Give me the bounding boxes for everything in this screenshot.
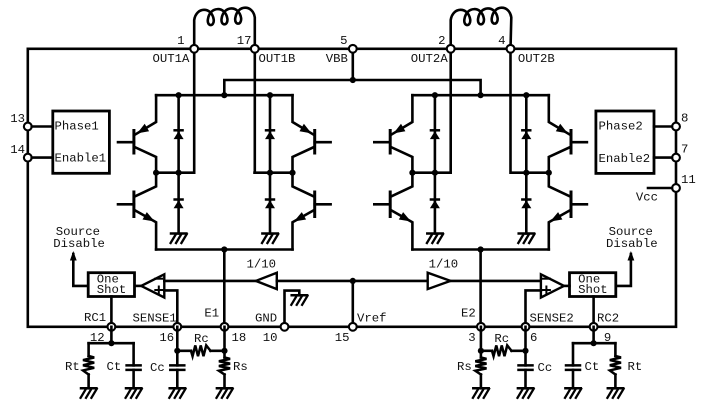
pin 13 (Phase 1 input) [24,123,32,131]
svg-text:RC2: RC2 [597,311,619,325]
svg-text:Vcc: Vcc [636,191,658,205]
wire pin3 down [478,327,484,354]
label OUT1B [259,52,296,66]
svg-text:Disable: Disable [606,237,658,251]
svg-text:Shot: Shot [578,283,608,297]
pin 6 (SENSE2) [522,323,530,331]
ground (Rs right) [473,388,489,398]
label Phase2 [599,120,643,134]
wire bridge 1 top rail [156,94,292,97]
svg-text:Rc: Rc [494,332,509,346]
svg-text:1: 1 [177,34,184,48]
logic block Phase2/Enable2 [596,111,654,173]
wire E2 sense [479,250,482,327]
resistor Rc (right) [481,345,526,356]
pin 17 (OUT1B) [251,45,259,53]
svg-text:2: 2 [438,34,445,48]
motor winding L1 (OUT1A-OUT1B) [194,8,255,49]
label Shot (U1) [97,283,127,297]
svg-text:VBB: VBB [326,52,348,66]
label GND [255,311,277,325]
node OUT2A [409,170,450,176]
svg-text:OUT1A: OUT1A [153,52,191,66]
label RC1 [84,311,106,325]
pin number 6 [530,331,537,345]
wire U2 to RC2 [592,297,595,327]
diode D1A-bottom [173,173,183,234]
label 1/10 left [247,257,277,271]
label Shot (U2) [578,283,608,297]
svg-text:18: 18 [232,331,247,345]
wire bridge 2 top rail [412,94,548,97]
pin number 18 [232,331,247,345]
wire comparator A1 minus input [164,280,256,283]
svg-text:Phase1: Phase1 [55,120,99,134]
pin 15 (Vref) [349,323,357,331]
wire VBB distribution [224,80,480,95]
svg-text:7: 7 [681,143,688,157]
svg-text:Rs: Rs [233,360,248,374]
svg-text:Rs: Rs [457,360,472,374]
pin 1 (OUT1A) [190,45,198,53]
ground (Rs left) [217,388,233,398]
label Vcc [636,191,658,205]
junction bridge 1 emitter node [221,246,227,252]
comparator A1 output wire [135,285,142,288]
svg-text:14: 14 [10,143,25,157]
svg-text:Rc: Rc [194,332,209,346]
label OUT1A [153,52,191,66]
resistor Rt (left) [83,343,94,388]
label Source (right) [609,225,653,239]
svg-text:RC1: RC1 [84,311,106,325]
svg-text:13: 13 [10,112,25,126]
svg-text:Cc: Cc [538,361,553,375]
wire RC2 branch [573,342,615,345]
wire VBB feed [351,49,354,80]
pin number 11 [681,173,696,187]
label Disable (right) [606,237,658,251]
svg-text:OUT2B: OUT2B [518,52,555,66]
pin 16 (SENSE1) [173,323,181,331]
junction VBB feed [350,77,356,83]
label Rc left [194,332,209,346]
label VBB [326,52,348,66]
wire Vref to attenuators [277,280,428,283]
label Cc right [538,361,553,375]
ground (Rt right) [607,388,623,398]
wire A2 to U2 [564,285,570,288]
svg-text:Phase2: Phase2 [599,120,643,134]
pin number 7 [681,143,688,157]
ground (bridge 2 diode B) [518,234,534,244]
label SENSE2 [530,311,574,325]
pin 5 (VBB) [349,45,357,53]
pin 2 (OUT2A) [447,45,455,53]
label Rs left [233,360,248,374]
ground (bridge 1 diode A) [171,234,187,244]
wire U1 source-disable [73,254,88,286]
junction bridge 1 diode A top [176,92,182,98]
svg-text:Cc: Cc [150,361,165,375]
label RC2 [597,311,619,325]
capacitor Ct (right) [566,343,580,388]
pin number 2 [438,34,445,48]
wire pin14 to Phase1 box [32,156,53,159]
resistor Rc (left) [177,345,224,356]
diode D2B-top [521,95,531,173]
diode D1B-bottom [265,173,275,234]
comparator A2 [541,274,564,297]
wire U2 source-disable [616,254,631,286]
label Source (left) [56,225,100,239]
label E1 [204,307,219,321]
pin number 14 [10,143,25,157]
one-shot U2 (right) [570,273,616,297]
attenuator 1/10 (left) [256,273,277,289]
node OUT2B [511,170,552,176]
svg-text:E2: E2 [461,307,476,321]
diode D2A-bottom [430,173,440,234]
attenuator 1/10 (right) [428,273,451,289]
logic block Phase1/Enable1 [53,111,110,173]
resistor Rt (right) [610,343,621,388]
wire pin13 to Phase1 box [32,125,53,128]
pin number 10 [263,331,278,345]
resistor Rs (left) [219,351,230,389]
wire bridge 2 bottom rail [412,248,548,251]
wire OUT2A [449,49,452,173]
pin number 9 [604,331,611,345]
junction bridge 1 diode B top [267,92,273,98]
junction bridge 2 VBB [478,92,484,98]
pin number 15 [335,331,350,345]
diode D1B-top [265,95,275,173]
wire pin18 down [221,327,227,354]
transistor Q2A-sink (bottom A) [374,173,412,250]
label Ct right [585,360,600,374]
junction bridge 1 VBB [221,92,227,98]
ground (bridge 1 diode B) [262,234,278,244]
svg-text:6: 6 [530,331,537,345]
capacitor Cc (left) [170,351,184,389]
ground (Cc left) [169,388,185,398]
transistor Q2A-source (top A) [374,95,412,173]
transistor Q2B-sink (bottom B) [549,173,587,250]
wire E1 sense [223,250,226,327]
svg-text:1/10: 1/10 [247,257,277,271]
pin 7 (Enable 2 input) [672,154,680,162]
junction bridge 2 diode B top [523,92,529,98]
transistor Q1B-sink (bottom B) [293,173,331,250]
pin number 13 [10,112,25,126]
label Enable1 [55,152,107,166]
ground (bridge 2 diode A) [427,234,443,244]
wire pin12 junction [108,327,114,347]
ground (Cc right) [518,388,534,398]
svg-text:Ct: Ct [107,360,122,374]
junction bridge 2 emitter node [478,246,484,252]
label Rc right [494,332,509,346]
transistor Q1A-sink (bottom A) [118,173,156,250]
svg-text:Shot: Shot [97,283,127,297]
wire pin6 down [522,327,528,354]
ground (GND pin) [291,295,307,305]
pin number 4 [498,34,505,48]
pin number 12 [90,331,105,345]
label Enable2 [599,152,651,166]
svg-text:OUT2A: OUT2A [411,52,449,66]
transistor Q1A-source (top A) [118,95,156,173]
wire OUT1B [254,49,257,173]
label OUT2B [518,52,555,66]
svg-text:Rt: Rt [65,360,80,374]
pin number 3 [468,331,475,345]
pin 11 (Vcc) [672,184,680,192]
label Rt left [65,360,80,374]
label OUT2A [411,52,449,66]
wire OUT1A [193,49,196,173]
svg-text:GND: GND [255,311,277,325]
pin 8 (Phase 2 input) [672,123,680,131]
wire RC1 branch [89,342,134,345]
label Rt right [628,360,643,374]
transistor Q2B-source (top B) [549,95,587,173]
one-shot U1 (left) [88,273,134,297]
wire GND [285,291,300,327]
diode D2B-bottom [521,173,531,234]
label Phase1 [55,120,99,134]
wire attenuator to comparator A2 [451,280,541,283]
junction Vref [350,278,356,284]
wire pin16 down [174,327,180,354]
pin 9 (RC2) [590,323,598,331]
wire Phase2 box to pin 8 [654,125,672,128]
wire Vcc stub [648,187,672,190]
node OUT1B [255,170,296,176]
pin number 5 [340,34,347,48]
svg-text:Rt: Rt [628,360,643,374]
pin 10 (GND) [281,323,289,331]
diode D2A-top [430,95,440,173]
svg-text:15: 15 [335,331,350,345]
ground (Ct right) [565,388,581,398]
junction bridge 2 diode A top [432,92,438,98]
resistor Rs (right) [475,351,486,389]
svg-text:E1: E1 [204,307,219,321]
svg-text:Disable: Disable [53,237,105,251]
pin number 8 [681,112,688,126]
ground (Ct left) [126,388,142,398]
wire Enable2 box to pin 7 [654,156,672,159]
svg-text:11: 11 [681,173,696,187]
label 1/10 right [429,257,459,271]
label E2 [461,307,476,321]
capacitor Cc (right) [519,351,533,389]
svg-text:5: 5 [340,34,347,48]
pin 18 (E1) [221,323,229,331]
pin number 1 [177,34,184,48]
label Rs right [457,360,472,374]
pin number 16 [159,331,174,345]
capacitor Ct (left) [127,343,141,388]
svg-text:3: 3 [468,331,475,345]
svg-text:SENSE1: SENSE1 [133,311,177,325]
wire pin9 junction [591,327,597,347]
node OUT1A [153,170,194,176]
label Disable (left) [53,237,105,251]
pin 12 (RC1) [108,323,116,331]
label Vref [357,311,387,325]
arrow source disable left [70,251,77,261]
pin 14 (Enable 1 input) [24,154,32,162]
svg-text:8: 8 [681,112,688,126]
comparator A1 [141,274,164,297]
svg-text:Enable1: Enable1 [55,152,107,166]
label SENSE1 [133,311,177,325]
pin number 17 [237,34,252,48]
svg-text:Enable2: Enable2 [599,152,651,166]
svg-text:17: 17 [237,34,252,48]
svg-text:OUT1B: OUT1B [259,52,296,66]
svg-text:10: 10 [263,331,278,345]
arrow source disable right [628,251,635,261]
label One (U2) [578,272,600,286]
label Cc left [150,361,165,375]
ground (Rt left) [81,388,97,398]
svg-text:Vref: Vref [357,311,387,325]
wire comparator A1 plus input [164,290,177,326]
svg-text:4: 4 [498,34,505,48]
pin 4 (OUT2B) [507,45,515,53]
svg-text:SENSE2: SENSE2 [530,311,574,325]
svg-text:16: 16 [159,331,174,345]
pin 3 (E2) [477,323,485,331]
label One (U1) [97,272,119,286]
diode D1A-top [173,95,183,173]
IC package outline [28,49,676,327]
wire comparator A2 plus input [526,290,541,326]
svg-text:Ct: Ct [585,360,600,374]
wire OUT2B [509,49,512,173]
svg-text:1/10: 1/10 [429,257,459,271]
transistor Q1B-source (top B) [293,95,331,173]
wire Vref [351,281,354,327]
wire U1 to RC1 [110,297,113,327]
motor winding L2 (OUT2A-OUT2B) [451,8,512,49]
wire bridge 1 bottom rail [156,248,292,251]
label Ct left [107,360,122,374]
